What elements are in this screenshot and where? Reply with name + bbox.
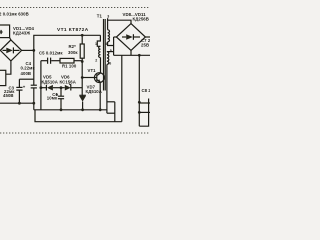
diode bridge VD8-VD11 <box>116 24 145 51</box>
zener diode VD6 <box>58 84 82 91</box>
svg-text:1: 1 <box>95 42 97 46</box>
diode VD5 <box>41 85 58 91</box>
wire base drop <box>81 62 83 96</box>
wire C3 top link to C4 line <box>28 78 34 80</box>
svg-text:VT1 КТ872А: VT1 КТ872А <box>57 27 89 33</box>
lower connector box (cut at left edge) <box>0 70 6 85</box>
svg-text:R1 100: R1 100 <box>62 63 77 68</box>
svg-text:6: 6 <box>109 62 111 66</box>
node output tap <box>138 101 141 104</box>
frame dashed bottom border <box>0 132 150 134</box>
svg-text:+: + <box>56 92 59 97</box>
wire rail B to rail C link <box>35 110 122 122</box>
fuse mark inside box (cut) <box>0 31 3 33</box>
svg-text:VT1: VT1 <box>88 68 97 73</box>
node junction at +bus corner <box>32 49 35 52</box>
wire pin6 down to rail B <box>106 64 108 113</box>
wire primary top connection <box>97 35 100 46</box>
node emitter rail B <box>99 108 102 111</box>
node C3 on rail A <box>18 102 21 105</box>
base drive wire with C5 <box>41 60 47 62</box>
node R1 R2 base junction <box>81 60 84 63</box>
bottom rail A <box>0 102 34 104</box>
svg-text:300к: 300к <box>68 50 78 55</box>
bottom rail B <box>34 109 107 111</box>
svg-text:КД256В: КД256В <box>133 17 149 22</box>
wire +bus riser and top rail <box>34 35 101 50</box>
svg-text:С8 2: С8 2 <box>142 88 151 93</box>
svg-text:КД510А: КД510А <box>42 79 58 84</box>
svg-text:+: + <box>23 84 26 89</box>
wire feedback riser <box>114 102 116 122</box>
wire output tap to edge <box>139 102 150 104</box>
svg-text:450В: 450В <box>3 93 14 98</box>
transistor VT1 <box>82 66 104 110</box>
wire pin6 jog to riser <box>107 101 115 103</box>
wire rail C right riser <box>121 55 123 121</box>
resistor R2 <box>80 35 84 61</box>
wire pin3 to bridge2 top <box>108 18 131 30</box>
wire primary bottom to collector <box>100 58 102 67</box>
node output tap 2 <box>138 111 141 114</box>
output wire column <box>138 55 140 126</box>
svg-text:КД243Ж: КД243Ж <box>13 31 30 36</box>
diode bridge VD1-VD4 <box>0 40 21 61</box>
diode VD7 <box>79 95 86 110</box>
wire bridge2 right to edge <box>145 36 150 38</box>
frame dashed top border <box>0 7 150 9</box>
node VD5 tee <box>40 86 43 89</box>
capacitor C4 <box>31 50 37 109</box>
node output rail <box>138 54 141 57</box>
node base tee <box>81 76 84 79</box>
wire bridge bottom to lower box <box>6 61 11 74</box>
wire left drop to rail B <box>40 61 42 110</box>
svg-text:2 0.01мк 630В: 2 0.01мк 630В <box>0 12 29 17</box>
transformer secondary winding 2 <box>107 52 109 65</box>
svg-text:400В: 400В <box>21 71 32 76</box>
node C6 rail B <box>60 108 63 111</box>
input filter box (cut at left edge) <box>0 25 10 38</box>
svg-text:КС156А: КС156А <box>60 79 76 84</box>
svg-text:R2*: R2* <box>69 44 77 49</box>
transformer T1 core <box>104 19 106 91</box>
wire output tap 2 to edge <box>139 111 150 113</box>
svg-text:КД510А: КД510А <box>86 89 102 94</box>
wire bridge2 bottom rail <box>130 50 132 55</box>
svg-text:2: 2 <box>95 58 97 62</box>
capacitor C6 <box>56 88 65 110</box>
wire pin5 hook to output rail <box>107 51 114 53</box>
wire pin4 to bridge2 left <box>108 42 114 46</box>
node R2 top <box>81 34 84 37</box>
wire box to bridge top <box>10 38 11 40</box>
transformer primary winding <box>99 46 101 57</box>
svg-text:Т1: Т1 <box>97 14 103 19</box>
svg-text:С5 0.012мк: С5 0.012мк <box>39 51 63 56</box>
transformer secondary winding 1 <box>108 30 110 42</box>
capacitor C5 <box>48 58 51 64</box>
node VD7 rail B <box>81 108 84 111</box>
wire output loop bottom <box>139 99 148 127</box>
wire rail B step to riser <box>107 112 115 114</box>
wire bridge right corner to +node <box>22 49 34 51</box>
svg-text:25В: 25В <box>141 42 149 47</box>
node C6 tee <box>60 86 63 89</box>
svg-text:3: 3 <box>107 15 109 19</box>
capacitor C3 <box>16 79 28 103</box>
resistor R1 <box>60 58 74 63</box>
node C4 on rail A <box>32 102 35 105</box>
